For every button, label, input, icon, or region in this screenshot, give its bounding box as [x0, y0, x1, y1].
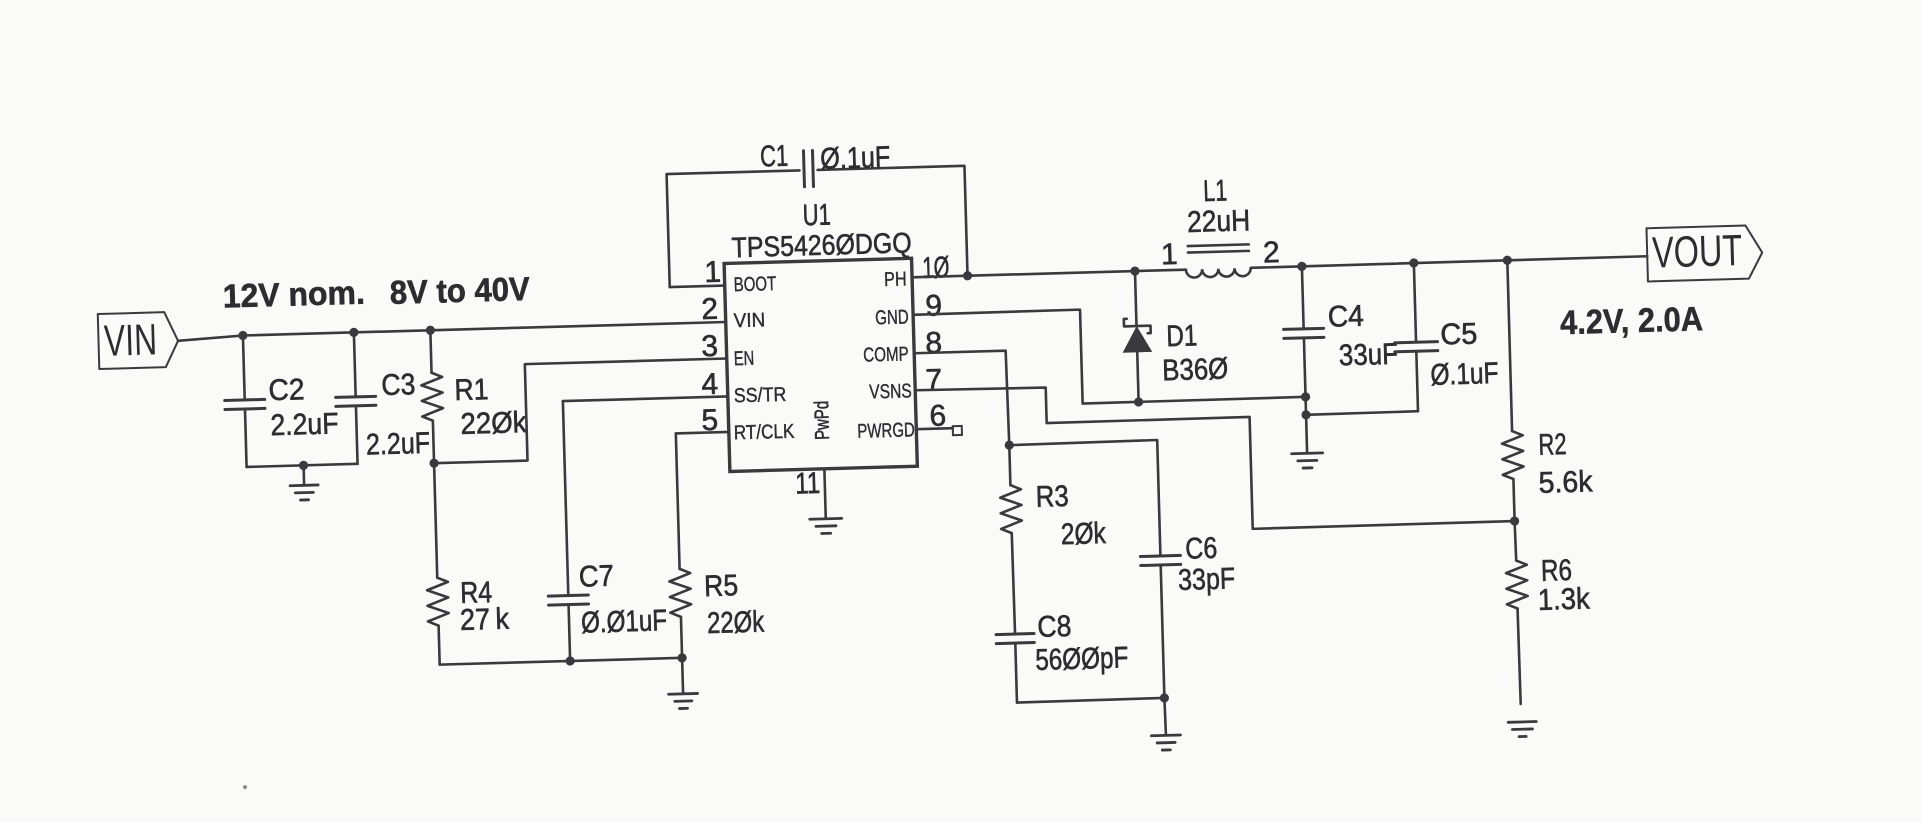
svg-text:27 k: 27 k: [460, 603, 511, 637]
capacitor C2: [243, 335, 245, 399]
svg-text:5.6k: 5.6k: [1538, 465, 1594, 500]
capacitor C1 loop: [667, 170, 803, 287]
svg-text:C5: C5: [1440, 318, 1478, 352]
inductor L1: [1186, 268, 1251, 278]
svg-text:TPS5426ØDGQ: TPS5426ØDGQ: [731, 227, 912, 264]
capacitor C8: [996, 634, 1034, 635]
svg-text:RT/CLK: RT/CLK: [734, 421, 796, 445]
svg-text:4: 4: [701, 368, 719, 401]
svg-text:1: 1: [704, 256, 722, 289]
node VIN rail junction at C3: [349, 328, 358, 337]
node C6/C8 bottom junction: [1160, 693, 1169, 702]
svg-text:1Ø: 1Ø: [922, 251, 950, 285]
capacitor C3: [354, 332, 356, 396]
svg-text:L1: L1: [1203, 174, 1228, 208]
resistor R5: [681, 617, 682, 658]
svg-text:B36Ø: B36Ø: [1162, 353, 1229, 388]
node PH/C1 junction: [963, 271, 972, 280]
svg-text:VOUT: VOUT: [1651, 226, 1742, 277]
node R2/R6 divider junction: [1510, 516, 1519, 525]
pin 1 BOOT: [670, 286, 725, 288]
svg-text:R1: R1: [454, 373, 489, 407]
node R1 bottom junction: [429, 458, 438, 467]
svg-text:22uH: 22uH: [1187, 204, 1251, 239]
svg-text:EN: EN: [733, 348, 754, 371]
ground below C6/C8: [1164, 698, 1166, 735]
svg-text:8V to 40V: 8V to 40V: [389, 270, 530, 311]
resistor R3: [1009, 445, 1010, 485]
svg-text:C6: C6: [1185, 532, 1218, 566]
ground below C4: [1306, 415, 1307, 453]
svg-text:2: 2: [701, 293, 719, 326]
node C4 junction: [1297, 262, 1306, 271]
svg-text:5: 5: [701, 404, 719, 437]
resistor R4: [434, 463, 437, 577]
node VIN rail junction at R1: [426, 326, 435, 335]
svg-text:R5: R5: [704, 569, 739, 603]
node PH/D1 junction: [1130, 266, 1139, 275]
wire COMP net from pin 8: [914, 351, 1009, 448]
svg-text:Ø.1uF: Ø.1uF: [820, 141, 891, 176]
wire C8 bottom: [1017, 698, 1164, 703]
ground below R5: [682, 658, 683, 694]
wire C7 to SS/TR pin: [563, 396, 728, 401]
node D1 bottom junction: [1134, 397, 1143, 406]
svg-text:R3: R3: [1035, 480, 1069, 514]
capacitor C7: [569, 605, 571, 661]
node R3/C6 top junction: [1005, 440, 1014, 449]
svg-text:Ø.Ø1uF: Ø.Ø1uF: [581, 604, 668, 639]
svg-text:12V nom.: 12V nom.: [222, 274, 365, 315]
svg-text:D1: D1: [1166, 319, 1198, 353]
wire C5 bottom to gnd net: [1306, 411, 1418, 415]
wire C2-C3 bottom: [247, 464, 358, 467]
wire PH output rail: [912, 270, 1186, 278]
IC U1 TPS54260DGQ body: [724, 258, 917, 471]
svg-text:BOOT: BOOT: [733, 273, 776, 296]
svg-text:R2: R2: [1538, 428, 1567, 462]
port VOUT connector: [1646, 225, 1762, 281]
wire VSNS feedback net from pin 7: [915, 374, 1514, 539]
svg-text:22Øk: 22Øk: [707, 606, 766, 641]
svg-text:VSNS: VSNS: [869, 380, 912, 403]
node C4/C5 bottom junction: [1301, 410, 1310, 419]
ground below pin 11: [810, 517, 842, 521]
svg-text:PH: PH: [884, 268, 907, 291]
ground below R6: [1508, 720, 1536, 724]
svg-text:33pF: 33pF: [1178, 562, 1236, 597]
svg-text:33uF: 33uF: [1338, 338, 1398, 373]
node C7 bottom junction: [565, 656, 574, 665]
resistor R6: [1515, 521, 1517, 560]
resistor R1: [430, 330, 431, 372]
speck: [243, 785, 247, 789]
wire EN net: [431, 358, 729, 463]
svg-text:PWRGD: PWRGD: [857, 419, 915, 443]
svg-text:C2: C2: [268, 373, 305, 407]
svg-text:PwPd: PwPd: [811, 401, 834, 441]
wire R5 to RT/CLK pin: [676, 432, 729, 433]
svg-text:1: 1: [1161, 238, 1179, 271]
svg-text:7: 7: [925, 363, 943, 396]
svg-text:11: 11: [795, 467, 821, 501]
capacitor C5: [1414, 263, 1416, 342]
pin 11 PwPd pad: [824, 469, 825, 519]
svg-text:2Øk: 2Øk: [1060, 517, 1107, 551]
node VIN rail junction at C2: [238, 331, 247, 340]
node R5 bottom junction: [677, 653, 686, 662]
svg-text:2: 2: [1263, 236, 1281, 269]
svg-text:C4: C4: [1327, 300, 1364, 334]
wire VIN rail: [178, 322, 726, 341]
wire L1 to VOUT: [1251, 256, 1648, 268]
svg-text:VIN: VIN: [733, 309, 765, 332]
svg-text:SS/TR: SS/TR: [734, 384, 787, 407]
svg-text:56ØØpF: 56ØØpF: [1035, 641, 1129, 677]
port VIN connector: [98, 312, 179, 369]
svg-text:C1: C1: [760, 140, 789, 174]
svg-text:2.2uF: 2.2uF: [366, 427, 431, 462]
svg-text:3: 3: [701, 330, 719, 363]
svg-text:1.3k: 1.3k: [1537, 582, 1591, 616]
capacitor C4: [1302, 266, 1304, 328]
svg-text:8: 8: [925, 326, 943, 359]
node R2 junction: [1503, 256, 1512, 265]
svg-text:VIN: VIN: [103, 315, 157, 365]
svg-text:GND: GND: [875, 306, 909, 329]
capacitor C6: [1140, 555, 1180, 556]
node C5 junction: [1409, 258, 1418, 267]
diode D1 schottky B360: [1135, 271, 1137, 326]
node bottom junction: [299, 461, 308, 470]
wire GND net from pin 9: [913, 303, 1305, 408]
schottky cathode bar: [1124, 318, 1151, 334]
svg-text:22Øk: 22Øk: [460, 406, 528, 441]
svg-text:Ø.1uF: Ø.1uF: [1430, 357, 1499, 392]
ground below C2/C3: [302, 465, 305, 485]
wire SS/TR bottom net: [440, 658, 682, 665]
svg-text:2.2uF: 2.2uF: [270, 407, 339, 442]
svg-text:C3: C3: [381, 368, 416, 402]
svg-text:C8: C8: [1037, 610, 1072, 644]
svg-text:4.2V, 2.0A: 4.2V, 2.0A: [1560, 300, 1704, 342]
svg-text:U1: U1: [802, 199, 831, 233]
pin 6 stub and no-connect square: [916, 428, 952, 429]
resistor R2: [1507, 260, 1512, 431]
svg-text:9: 9: [925, 289, 943, 322]
svg-text:COMP: COMP: [863, 343, 909, 366]
svg-text:C7: C7: [578, 560, 614, 594]
node C4 bottom junction: [1301, 392, 1310, 401]
